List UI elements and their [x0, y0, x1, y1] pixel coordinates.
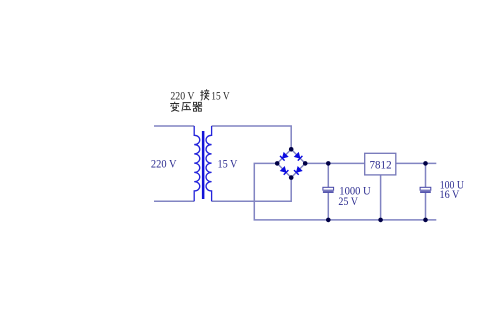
title: glyph ya (press) [182, 103, 191, 112]
node: C2 bottom junction [423, 218, 428, 223]
title: glyph qi (device) [193, 102, 203, 111]
svg-text:7812: 7812 [370, 158, 392, 172]
wire: C1 leads [327, 163, 329, 220]
regulator U1 7812 box [365, 153, 396, 175]
svg-text:25 V: 25 V [338, 196, 358, 208]
bridge diamond edges [277, 149, 305, 177]
svg-text:220 V: 220 V [170, 91, 195, 103]
title: glyph jie (connect) [200, 89, 209, 100]
node: bridge left vertex [275, 161, 280, 166]
diode D3 bottom-left [280, 167, 288, 175]
node: bridge right vertex [303, 161, 308, 166]
node: C1 bottom junction [326, 218, 331, 223]
transformer T1 core [202, 131, 205, 199]
node: C2 top junction [423, 161, 428, 166]
svg-text:15 V: 15 V [211, 91, 230, 103]
title: glyph bian (trans-) [170, 102, 179, 112]
transformer T1 secondary winding [206, 126, 212, 201]
node: bridge bottom vertex [289, 175, 294, 180]
diode D2 top-right [294, 153, 302, 161]
wire: bridge left vertex to ground rail [254, 163, 436, 220]
diode D1 top-left [280, 153, 288, 161]
node: C1 top junction [326, 161, 331, 166]
transformer T1 primary winding [194, 126, 200, 201]
wire: regulator output stub [396, 162, 437, 164]
capacitor C1 1000U 25V [323, 187, 334, 193]
node: regulator ground junction [378, 218, 383, 223]
wire: secondary top to bridge top [212, 126, 292, 149]
wire: C2 leads [425, 163, 427, 220]
wire: regulator ground pin [380, 175, 382, 220]
wire: bridge right vertex to regulator input [305, 162, 365, 164]
svg-text:15 V: 15 V [218, 159, 239, 171]
wire: primary bottom lead [154, 200, 194, 202]
wire: secondary bottom to bridge bottom [212, 178, 292, 202]
wire: primary top lead [154, 125, 194, 127]
svg-text:16 V: 16 V [440, 189, 461, 201]
diode D4 bottom-right [294, 167, 302, 175]
svg-text:220 V: 220 V [151, 159, 177, 171]
capacitor C2 100U 16V [420, 187, 431, 193]
node: bridge top vertex [289, 147, 294, 152]
